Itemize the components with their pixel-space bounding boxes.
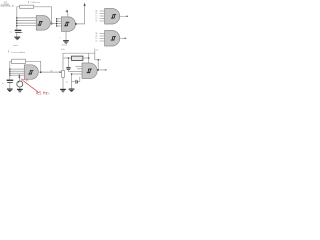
junction dots bus3 xyxy=(9,69,10,76)
svg-text:1 kHz osc: 1 kHz osc xyxy=(30,2,41,4)
wire motor to ground xyxy=(19,87,21,89)
net flag on pin14 xyxy=(65,10,68,13)
gate U2B input pins xyxy=(100,34,105,42)
wire down to motor xyxy=(19,75,21,81)
wire pot to ground xyxy=(62,77,64,89)
junction dots on bus 1 xyxy=(16,17,17,26)
ground under C2 xyxy=(7,89,13,92)
red annotation text xyxy=(36,92,49,95)
wire bus3 branches xyxy=(10,69,25,75)
section 1 label xyxy=(28,1,41,4)
wire bus2 branches xyxy=(57,19,62,26)
ground under gate2 xyxy=(63,41,69,44)
svg-text:1 Hz: 1 Hz xyxy=(61,49,65,51)
wire gate1 out to bus2 xyxy=(50,23,56,25)
gate U1D xyxy=(82,63,97,79)
wire feedback R2 to gate5 out xyxy=(26,61,41,72)
svg-text:2C: 2C xyxy=(95,38,98,40)
ground under motor xyxy=(17,89,23,92)
wire input branch 3 xyxy=(17,22,37,24)
wire R1 left to input bus xyxy=(17,7,20,30)
ground under C1 xyxy=(14,37,20,40)
gate U2A (top right) xyxy=(105,9,120,25)
gate U2B output pin xyxy=(120,37,125,39)
svg-text:2D: 2D xyxy=(95,41,98,43)
wire rail stub to gate top xyxy=(88,53,90,63)
wire gate2 out to VCC riser xyxy=(75,5,84,24)
svg-text:7: 7 xyxy=(59,38,60,40)
node gate5 output junction xyxy=(40,71,42,73)
pin 7 stub under gate2 xyxy=(65,31,67,40)
gate U1D input wires xyxy=(68,66,82,74)
svg-text:on: on xyxy=(96,50,98,52)
svg-text:1E: 1E xyxy=(95,21,97,23)
node dot on motor wire xyxy=(19,76,21,77)
svg-text:1u: 1u xyxy=(10,31,12,33)
output tick gate6 xyxy=(105,69,107,70)
gate U1B xyxy=(61,17,75,32)
gate U2A output pin xyxy=(120,15,127,17)
svg-text:2B: 2B xyxy=(95,36,97,38)
node gate2 output dot xyxy=(75,23,77,25)
svg-text:4.7: 4.7 xyxy=(66,82,68,84)
svg-text:mod.sq: mod.sq xyxy=(61,44,67,46)
junction dots bus2 xyxy=(56,18,57,26)
wire gate5 out to pot wiper xyxy=(41,71,61,73)
gate U1C xyxy=(24,65,38,80)
svg-text:COM OSCIL. St: COM OSCIL. St xyxy=(0,5,14,8)
output tick U2B xyxy=(124,38,126,39)
red annotation line xyxy=(23,81,39,93)
svg-text:1C: 1C xyxy=(95,16,98,18)
node gate1 output junction xyxy=(51,23,53,25)
wire bus2 vertical xyxy=(56,19,58,26)
gate U2A input pins xyxy=(100,11,105,21)
ground under pot xyxy=(60,89,66,92)
power arrow VCC xyxy=(83,3,85,6)
motor M1 xyxy=(17,81,23,87)
wire input branch 4 xyxy=(17,25,37,27)
net stub up at rail corner xyxy=(94,49,96,54)
svg-text:1A: 1A xyxy=(95,10,97,13)
node gate6 output xyxy=(97,69,99,71)
pin 14 stub on gate2 xyxy=(67,13,69,17)
wire gate input4 to ground xyxy=(71,74,73,89)
gate U2B (right, second) xyxy=(105,31,120,47)
gate U2A pin labels xyxy=(95,10,98,23)
wire gate6 out xyxy=(97,69,105,71)
svg-text:1 sec oscillator: 1 sec oscillator xyxy=(11,51,26,54)
wire to R3 xyxy=(63,57,72,59)
svg-text:1k0: 1k0 xyxy=(50,70,53,72)
junction R3/stub xyxy=(88,57,89,58)
gate U2B pin labels xyxy=(95,32,98,43)
capacitor C2 xyxy=(7,80,14,89)
pot wiper arrow xyxy=(60,71,62,73)
svg-text:2A: 2A xyxy=(95,32,97,35)
capacitor C1 xyxy=(15,30,23,37)
resistor R2 xyxy=(12,59,26,63)
wire feedback R1 to output xyxy=(34,7,52,24)
output tick U2A xyxy=(126,16,128,17)
wire R3 right xyxy=(83,57,89,59)
svg-text:1D: 1D xyxy=(95,18,98,20)
svg-text:check: check xyxy=(13,45,18,47)
capacitor C4 xyxy=(72,77,80,84)
wire R2 left to bus3 xyxy=(10,61,12,80)
ground right xyxy=(69,89,75,92)
gate U1A xyxy=(36,16,50,31)
junction C3 top xyxy=(68,57,69,58)
capacitor C3 xyxy=(66,58,70,72)
section 2 label xyxy=(8,50,25,54)
junction input4 xyxy=(71,73,72,74)
junction riser xyxy=(98,59,99,60)
wire input branch 2 xyxy=(17,20,37,22)
potentiometer RV1 xyxy=(62,70,65,77)
red probe mark xyxy=(20,79,28,82)
title text block top-left xyxy=(0,2,14,8)
svg-text:1B: 1B xyxy=(95,13,97,15)
node motor tap xyxy=(19,75,20,76)
wire top rail section 3 xyxy=(63,53,101,70)
resistor R3 xyxy=(72,56,83,60)
svg-text:1u: 1u xyxy=(2,83,4,85)
wire riser to gate6 output xyxy=(97,60,99,70)
wire input branch 1 xyxy=(17,17,37,19)
resistor R1 xyxy=(20,5,34,8)
